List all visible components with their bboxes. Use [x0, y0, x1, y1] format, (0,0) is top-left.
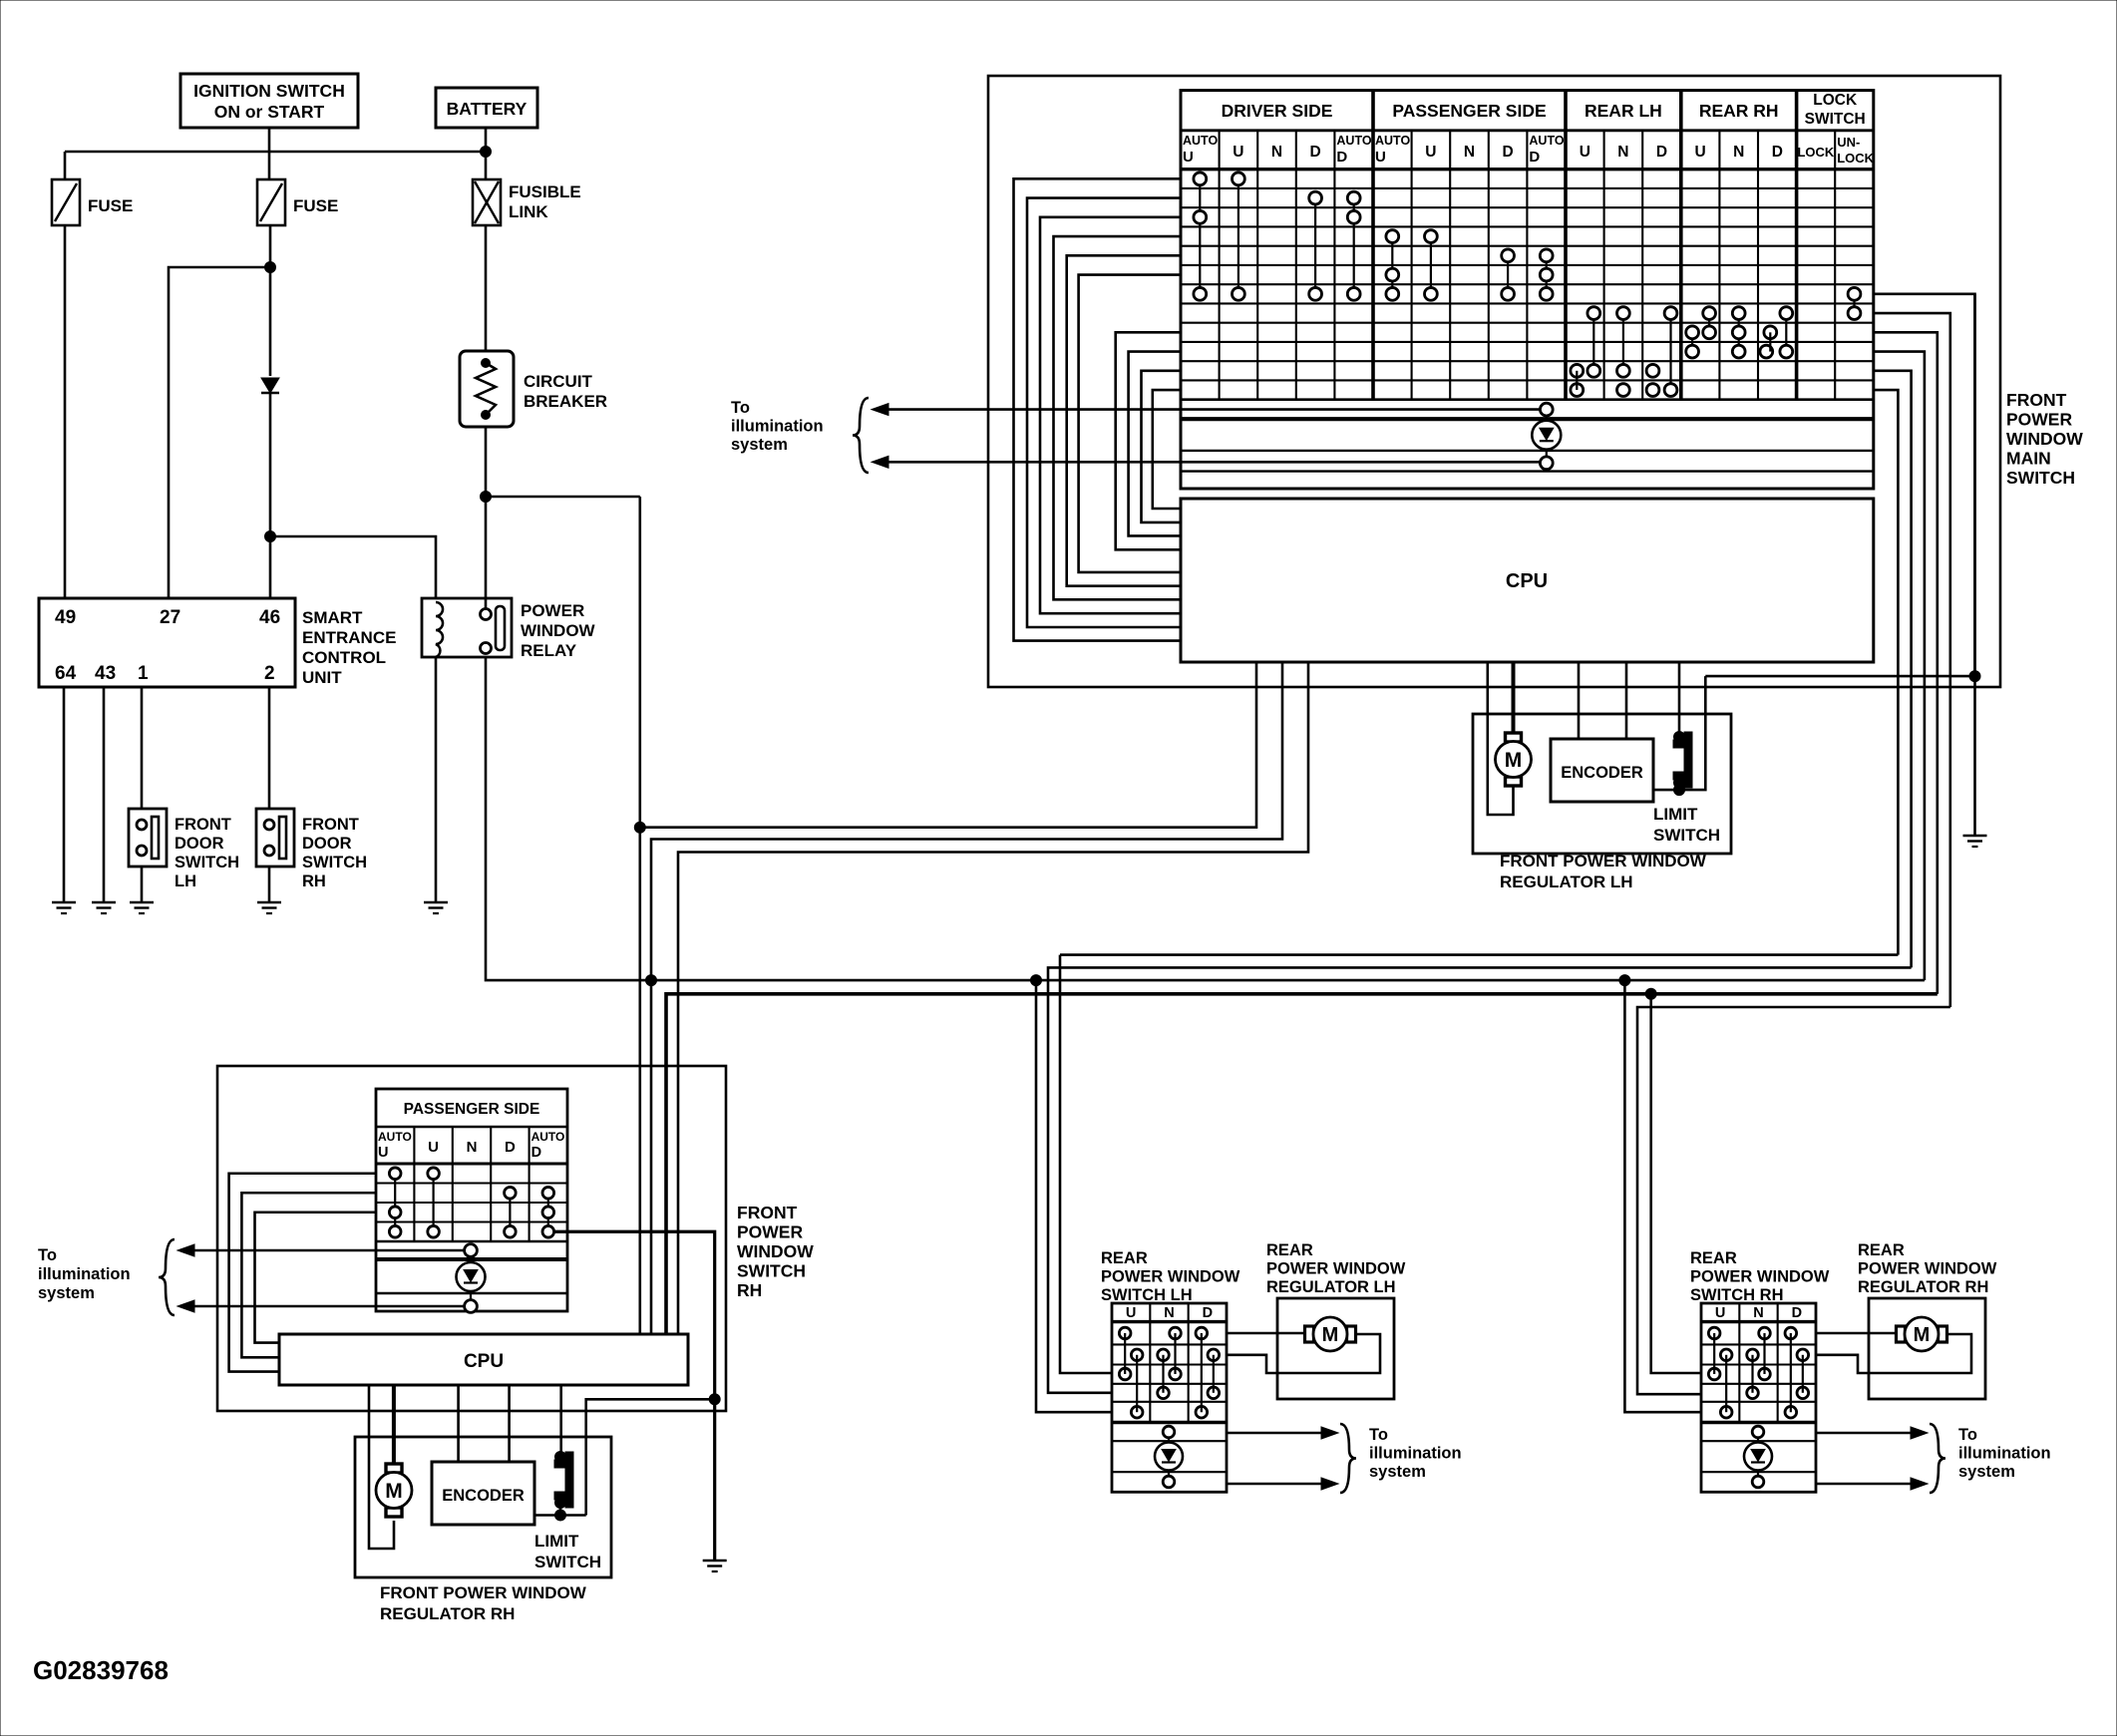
- wire rearRH row3 drop: [1651, 994, 1701, 1373]
- wire fusible link to breaker: [485, 225, 488, 351]
- svg-text:LIMIT: LIMIT: [534, 1532, 579, 1551]
- main switch table frame: [1181, 91, 1874, 489]
- arrow rear RH illumination bottom: [1911, 1478, 1928, 1490]
- encoder LH box: [1551, 739, 1653, 802]
- wire rear switch RH to motor: [1816, 1332, 1897, 1335]
- wire main-lower CPU thick bus: [666, 994, 1938, 1334]
- svg-text:SMART: SMART: [302, 608, 363, 627]
- svg-text:U: U: [1580, 144, 1590, 161]
- svg-text:SWITCH: SWITCH: [1653, 826, 1720, 845]
- wire ignition to fuse: [268, 128, 271, 179]
- svg-text:LH: LH: [175, 872, 196, 890]
- main switch left bundle wires to CPU: [1014, 178, 1182, 640]
- main switch rear RH contacts: [1708, 313, 1710, 332]
- wire breaker branch vertical: [638, 497, 641, 1334]
- svg-text:REGULATOR LH: REGULATOR LH: [1266, 1278, 1396, 1296]
- main switch column lines: [1219, 131, 1221, 400]
- svg-text:WINDOW: WINDOW: [2006, 429, 2083, 449]
- ignition switch box: [180, 74, 358, 128]
- wire main-rearLH row4: [1048, 967, 1912, 1392]
- svg-text:N: N: [1733, 144, 1744, 161]
- svg-text:D: D: [1656, 144, 1667, 161]
- svg-text:D: D: [1309, 144, 1320, 161]
- fusible link: [473, 179, 501, 225]
- node feed-rearRH: [1619, 975, 1630, 986]
- svg-text:REAR RH: REAR RH: [1699, 101, 1779, 121]
- svg-text:ENTRANCE: ENTRANCE: [302, 628, 396, 647]
- wire fuse2 down: [269, 225, 272, 376]
- battery box: [436, 88, 537, 128]
- svg-text:illumination: illumination: [38, 1265, 131, 1283]
- wire CPU to limit switch: [1678, 662, 1681, 734]
- wire limit switch return: [1705, 675, 1973, 678]
- wire pin43 to ground: [103, 687, 106, 902]
- main switch illumination lamp: [1546, 416, 1548, 449]
- arrow illumination bottom: [872, 456, 888, 468]
- svg-text:M: M: [1914, 1324, 1931, 1346]
- motor rear RH: [1897, 1326, 1906, 1342]
- svg-text:AUTO: AUTO: [1375, 134, 1410, 148]
- svg-text:FRONT: FRONT: [2006, 390, 2067, 410]
- ground pin64: [52, 901, 76, 904]
- svg-text:46: 46: [259, 607, 280, 628]
- front power window switch RH outer box: [217, 1066, 726, 1411]
- motor LH: [1506, 733, 1522, 742]
- brace illumination main: [853, 398, 869, 473]
- svg-text:D: D: [1792, 1305, 1802, 1321]
- wire lower encoder bottom link: [534, 1514, 586, 1517]
- wire CPU to encoder pin1: [1578, 662, 1581, 739]
- ground door LH: [130, 901, 154, 904]
- node feed-rearLH: [1031, 975, 1042, 986]
- front door switch LH: [129, 809, 167, 867]
- main switch header separators: [1181, 129, 1874, 132]
- svg-text:SWITCH: SWITCH: [175, 854, 239, 871]
- svg-text:REAR: REAR: [1266, 1241, 1313, 1259]
- main switch driver side contacts: [1199, 178, 1201, 294]
- svg-text:REAR: REAR: [1858, 1241, 1905, 1259]
- node thick-rearRH: [1645, 988, 1656, 999]
- front power window regulator LH box: [1473, 714, 1731, 854]
- svg-text:D: D: [1529, 149, 1540, 166]
- svg-text:POWER: POWER: [521, 601, 584, 620]
- ground door RH: [257, 901, 281, 904]
- svg-text:PASSENGER SIDE: PASSENGER SIDE: [404, 1101, 540, 1118]
- wire illumination top: [883, 408, 1541, 411]
- svg-text:UN-: UN-: [1837, 135, 1860, 150]
- wire lower CPU to motor return: [369, 1385, 394, 1549]
- wire lower CPU to motor brush: [392, 1385, 396, 1464]
- svg-text:N: N: [1617, 144, 1628, 161]
- svg-text:ON or START: ON or START: [214, 102, 325, 122]
- svg-text:CPU: CPU: [1506, 570, 1548, 592]
- svg-text:U: U: [378, 1145, 388, 1161]
- svg-text:SWITCH: SWITCH: [2006, 468, 2075, 488]
- limit switch RH: [554, 1452, 573, 1508]
- rear switch LH lamp: [1168, 1438, 1170, 1470]
- svg-text:D: D: [1502, 144, 1513, 161]
- svg-text:IGNITION SWITCH: IGNITION SWITCH: [193, 81, 345, 101]
- brace lower illumination: [159, 1239, 175, 1315]
- lower block left bundle wires: [229, 1174, 376, 1372]
- rear power window switch RH table: [1701, 1303, 1816, 1492]
- wire feed to rear LH switch row5: [1036, 980, 1112, 1412]
- ground pin43: [92, 901, 116, 904]
- svg-text:illumination: illumination: [731, 418, 824, 436]
- svg-text:U: U: [1375, 149, 1386, 166]
- main switch lock contacts: [1853, 294, 1855, 313]
- svg-text:system: system: [731, 436, 788, 454]
- svg-text:N: N: [1164, 1305, 1174, 1321]
- svg-text:REGULATOR RH: REGULATOR RH: [1858, 1278, 1988, 1296]
- wire main-rearRH row4: [1637, 1007, 1950, 1394]
- front power window regulator RH box: [355, 1437, 611, 1577]
- svg-text:WINDOW: WINDOW: [521, 621, 596, 640]
- svg-text:illumination: illumination: [1958, 1445, 2051, 1463]
- main switch footer rows: [1181, 417, 1874, 421]
- passenger side table frame: [376, 1089, 567, 1311]
- svg-text:POWER WINDOW: POWER WINDOW: [1266, 1260, 1406, 1278]
- wire to relay coil: [270, 536, 436, 598]
- svg-text:N: N: [1753, 1305, 1763, 1321]
- wire CPU pin1 down-left: [640, 662, 1256, 828]
- arrow lower illumination top: [177, 1244, 194, 1256]
- wire rear RH illumination bottom: [1816, 1483, 1913, 1486]
- svg-text:REAR: REAR: [1101, 1249, 1148, 1267]
- node lower ground junction: [709, 1394, 720, 1405]
- wire pin64 to ground: [63, 687, 66, 902]
- main switch passenger side contacts: [1391, 236, 1393, 294]
- lower CPU box: [279, 1334, 688, 1385]
- svg-text:LOCK: LOCK: [1837, 151, 1874, 166]
- main switch rear LH contacts: [1592, 313, 1594, 371]
- svg-text:PASSENGER SIDE: PASSENGER SIDE: [1392, 101, 1546, 121]
- wire rear LH illumination bottom: [1227, 1483, 1323, 1486]
- svg-text:D: D: [505, 1139, 516, 1156]
- svg-text:FRONT: FRONT: [175, 816, 231, 834]
- svg-text:SWITCH: SWITCH: [1805, 111, 1866, 128]
- arrow illumination top: [872, 404, 888, 416]
- svg-text:FRONT: FRONT: [302, 816, 359, 834]
- brace rear RH illumination: [1930, 1424, 1945, 1493]
- svg-text:LOCK: LOCK: [1797, 145, 1834, 160]
- svg-text:AUTO: AUTO: [531, 1130, 565, 1144]
- arrow rear RH illumination top: [1911, 1427, 1928, 1439]
- svg-text:M: M: [385, 1480, 403, 1503]
- svg-text:To: To: [731, 399, 750, 417]
- passenger table lamp: [470, 1256, 472, 1290]
- svg-text:CIRCUIT: CIRCUIT: [524, 372, 593, 391]
- wire encoder bottom link: [1653, 676, 1705, 790]
- svg-text:DOOR: DOOR: [175, 835, 224, 853]
- wire main-rearLH row3: [1060, 953, 1898, 956]
- svg-text:AUTO: AUTO: [1529, 134, 1564, 148]
- svg-text:CPU: CPU: [464, 1351, 504, 1372]
- svg-text:U: U: [1425, 144, 1436, 161]
- wire rear switch LH to motor return: [1227, 1334, 1380, 1373]
- svg-text:D: D: [531, 1145, 541, 1161]
- svg-text:FRONT: FRONT: [737, 1203, 798, 1222]
- wire diode to pin 46: [269, 393, 272, 598]
- circuit breaker: [460, 351, 514, 427]
- node fuse2 branch: [265, 262, 276, 273]
- node breaker branch: [481, 492, 492, 503]
- svg-text:RH: RH: [302, 872, 326, 890]
- svg-text:REAR LH: REAR LH: [1585, 101, 1662, 121]
- rear power window regulator RH box: [1869, 1298, 1985, 1399]
- wire lower limit return: [586, 1399, 715, 1515]
- svg-text:DRIVER SIDE: DRIVER SIDE: [1222, 101, 1333, 121]
- svg-text:BREAKER: BREAKER: [524, 392, 607, 411]
- svg-text:REAR: REAR: [1690, 1249, 1737, 1267]
- smart entrance control unit: [39, 598, 295, 687]
- svg-text:SWITCH: SWITCH: [737, 1261, 806, 1281]
- limit switch LH: [1673, 732, 1692, 788]
- svg-text:43: 43: [95, 663, 116, 684]
- front power window main switch outer box: [988, 76, 2000, 687]
- node lower encoder-limit junction: [555, 1510, 566, 1521]
- rear power window regulator LH box: [1277, 1298, 1394, 1399]
- brace rear LH illumination: [1340, 1424, 1356, 1493]
- svg-text:illumination: illumination: [1369, 1445, 1462, 1463]
- svg-text:UNIT: UNIT: [302, 668, 342, 687]
- node battery junction: [481, 147, 492, 158]
- svg-text:LOCK: LOCK: [1813, 92, 1858, 109]
- svg-text:SWITCH: SWITCH: [534, 1553, 601, 1571]
- wire feed to rear RH switch row5: [1624, 980, 1701, 1412]
- motor rear LH: [1305, 1326, 1314, 1342]
- motor RH: [386, 1464, 402, 1473]
- wire pin1 to door switch LH: [141, 687, 144, 809]
- rear switch LH contacts: [1119, 1327, 1131, 1339]
- svg-text:N: N: [1271, 144, 1282, 161]
- svg-text:RELAY: RELAY: [521, 641, 577, 660]
- wire lower CPU to limit switch: [559, 1385, 562, 1454]
- svg-text:U: U: [1126, 1305, 1136, 1321]
- encoder RH box: [432, 1462, 534, 1525]
- svg-text:To: To: [1369, 1426, 1388, 1444]
- svg-text:REGULATOR LH: REGULATOR LH: [1500, 872, 1632, 891]
- svg-text:2: 2: [264, 663, 275, 684]
- wire branch to pin 27: [169, 267, 270, 598]
- svg-text:SWITCH LH: SWITCH LH: [1101, 1286, 1193, 1304]
- svg-text:ENCODER: ENCODER: [442, 1487, 525, 1505]
- svg-text:U: U: [428, 1139, 439, 1156]
- wire pin2 to door switch RH: [268, 687, 271, 809]
- arrow rear LH illumination top: [1321, 1427, 1338, 1439]
- ground lower block: [703, 1560, 727, 1562]
- node feed-x653: [646, 975, 657, 986]
- svg-text:64: 64: [55, 663, 77, 684]
- passenger table contacts: [394, 1174, 396, 1232]
- svg-text:BATTERY: BATTERY: [447, 99, 528, 119]
- svg-text:MAIN: MAIN: [2006, 449, 2051, 469]
- rear power window switch LH table: [1112, 1303, 1227, 1492]
- svg-text:49: 49: [55, 607, 76, 628]
- wire rear RH illumination top: [1816, 1432, 1913, 1435]
- svg-text:SWITCH: SWITCH: [302, 854, 367, 871]
- wire CPU to motor LH return: [1488, 662, 1514, 815]
- svg-text:AUTO: AUTO: [1336, 134, 1371, 148]
- svg-text:SWITCH RH: SWITCH RH: [1690, 1286, 1784, 1304]
- svg-text:LIMIT: LIMIT: [1653, 805, 1698, 824]
- wire auto-d to ground bus: [554, 1231, 715, 1561]
- svg-text:D: D: [1336, 149, 1347, 166]
- wire rear LH illumination top: [1227, 1432, 1323, 1435]
- svg-text:POWER WINDOW: POWER WINDOW: [1101, 1268, 1240, 1286]
- svg-text:G02839768: G02839768: [33, 1655, 169, 1685]
- svg-text:AUTO: AUTO: [378, 1130, 412, 1144]
- wire to left fuse: [64, 152, 67, 179]
- node ground junction: [1969, 671, 1980, 682]
- wire illumination bottom: [883, 461, 1541, 464]
- svg-text:M: M: [1322, 1324, 1339, 1346]
- front door switch RH: [256, 809, 294, 867]
- main switch right exit wires: [1874, 294, 1975, 676]
- wire relay contact feed bus: [486, 657, 1925, 980]
- wire lower CPU to encoder pin1: [457, 1385, 460, 1462]
- rear switch RH contacts: [1708, 1327, 1720, 1339]
- wire lower illumination bottom: [189, 1305, 465, 1308]
- svg-text:U: U: [1715, 1305, 1725, 1321]
- arrow rear LH illumination bottom: [1321, 1478, 1338, 1490]
- wire CPU to encoder pin2: [1625, 662, 1628, 739]
- wire branch right: [486, 496, 640, 499]
- wire CPU pin2 down-left: [651, 662, 1282, 1334]
- fuse F1: [52, 179, 80, 225]
- svg-text:POWER: POWER: [2006, 410, 2072, 430]
- svg-text:RH: RH: [737, 1280, 762, 1300]
- main switch grid rows: [1181, 187, 1874, 189]
- svg-text:N: N: [1464, 144, 1475, 161]
- svg-text:27: 27: [160, 607, 180, 628]
- svg-text:FRONT POWER WINDOW: FRONT POWER WINDOW: [1500, 852, 1707, 870]
- ground relay: [424, 901, 448, 904]
- wire rear switch LH to motor: [1227, 1332, 1305, 1335]
- svg-text:system: system: [1369, 1463, 1426, 1481]
- arrow lower illumination bottom: [177, 1300, 194, 1312]
- wire breaker to relay contact: [485, 427, 488, 614]
- wire relay coil to ground: [435, 657, 438, 902]
- svg-text:system: system: [1958, 1463, 2015, 1481]
- svg-text:To: To: [1958, 1426, 1977, 1444]
- svg-text:D: D: [1772, 144, 1783, 161]
- svg-text:FUSE: FUSE: [293, 196, 338, 215]
- svg-text:FUSIBLE: FUSIBLE: [509, 182, 581, 201]
- wire rearLH row3 drop: [1060, 955, 1112, 1373]
- wire CPU pin3 down-left: [678, 662, 1308, 1334]
- wire CPU to motor LH brush: [1512, 662, 1516, 733]
- svg-text:REGULATOR RH: REGULATOR RH: [380, 1604, 515, 1623]
- rear switch RH lamp: [1757, 1438, 1759, 1470]
- svg-text:DOOR: DOOR: [302, 835, 352, 853]
- wire lock to ground junction: [1973, 294, 1976, 836]
- svg-text:1: 1: [138, 663, 149, 684]
- node encoder-limit junction: [1674, 785, 1685, 796]
- wire lower CPU to encoder pin2: [508, 1385, 511, 1462]
- main switch CPU box: [1181, 499, 1874, 662]
- node relay-CPU junction: [634, 822, 645, 833]
- svg-text:system: system: [38, 1284, 95, 1302]
- svg-text:To: To: [38, 1246, 57, 1264]
- svg-text:WINDOW: WINDOW: [737, 1241, 814, 1261]
- node pin46 branch: [265, 531, 276, 542]
- wire horizontal feed: [65, 151, 486, 154]
- fuse F2: [257, 179, 285, 225]
- svg-text:POWER WINDOW: POWER WINDOW: [1690, 1268, 1830, 1286]
- ground main switch: [1963, 835, 1987, 838]
- wire lower illumination top: [189, 1249, 465, 1252]
- wire rear switch RH to motor return: [1816, 1334, 1971, 1373]
- wire door LH to ground: [141, 867, 144, 902]
- wire door RH to ground: [268, 867, 271, 902]
- diode D1: [261, 378, 279, 393]
- power window relay: [422, 598, 512, 657]
- svg-text:U: U: [1233, 144, 1243, 161]
- svg-text:U: U: [1183, 149, 1194, 166]
- svg-text:D: D: [1203, 1305, 1213, 1321]
- svg-text:FUSE: FUSE: [88, 196, 133, 215]
- svg-text:LINK: LINK: [509, 202, 548, 221]
- svg-text:AUTO: AUTO: [1183, 134, 1218, 148]
- svg-text:U: U: [1694, 144, 1705, 161]
- svg-text:M: M: [1505, 749, 1523, 772]
- svg-text:FRONT POWER WINDOW: FRONT POWER WINDOW: [380, 1583, 587, 1602]
- svg-text:N: N: [467, 1139, 478, 1156]
- svg-text:POWER: POWER: [737, 1222, 803, 1242]
- wire battery down: [485, 128, 488, 179]
- svg-text:CONTROL: CONTROL: [302, 648, 386, 667]
- svg-text:ENCODER: ENCODER: [1561, 764, 1643, 782]
- svg-text:POWER WINDOW: POWER WINDOW: [1858, 1260, 1997, 1278]
- wire fuse1 to pin 49: [64, 225, 67, 598]
